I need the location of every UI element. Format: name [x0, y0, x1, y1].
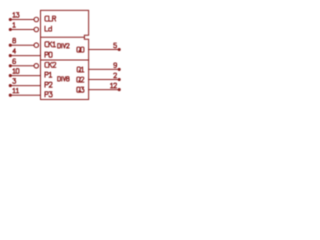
pin number 5 — [114, 43, 117, 48]
pin name Q2 — [77, 77, 84, 82]
pin name P2 — [45, 82, 52, 87]
pin 11 end dot — [9, 94, 12, 97]
pin 1 invert bubble — [34, 27, 39, 32]
pin 8 end dot — [9, 44, 12, 47]
pin name Q1 — [77, 67, 84, 72]
pin number 6 — [13, 59, 16, 64]
pin 6 invert bubble — [34, 64, 39, 69]
pin 12 end dot — [118, 88, 121, 91]
pin 10 end dot — [9, 74, 12, 77]
pin number 9 — [114, 63, 117, 68]
pin name P0 — [45, 52, 52, 57]
pin 12 Q3 wire — [89, 89, 118, 91]
pin name P1 — [45, 72, 52, 77]
pin 9 Q1 wire — [89, 68, 118, 70]
pin name CK2 — [45, 62, 56, 67]
pin 2 Q2 wire — [89, 79, 118, 81]
pin 9 end dot — [118, 68, 121, 71]
pin 6 CK2 wire — [10, 65, 33, 67]
pin name CK1 — [45, 42, 56, 47]
pin 5 Q0 wire — [89, 49, 118, 51]
pin name Q3 — [77, 87, 84, 92]
divider control block / DIV2 section — [41, 36, 85, 38]
pin number 10 — [13, 69, 19, 74]
pin number 1 — [13, 23, 15, 28]
pin 13 end dot — [9, 18, 12, 21]
pin 4 P0 wire — [10, 55, 40, 57]
pin 6 end dot — [9, 64, 12, 67]
pin 4 end dot — [9, 54, 12, 57]
function label DIV2 — [58, 44, 69, 48]
pin number 4 — [13, 49, 16, 54]
IC U1 74LS197 body outline (control block notch on right) — [41, 10, 89, 99]
pin 11 P3 wire — [10, 94, 40, 96]
pin 2 end dot — [118, 78, 121, 81]
pin name Q0 — [77, 47, 84, 52]
pin 5 end dot — [118, 48, 121, 51]
pin 8 CK1 wire — [10, 44, 33, 46]
pin 3 end dot — [9, 84, 12, 87]
pin 3 P2 wire — [10, 85, 40, 87]
pin 1 Ld wire — [10, 29, 33, 31]
pin number 11 — [13, 88, 19, 93]
divider DIV2 / DIV8 section — [41, 59, 89, 61]
pin name CLR — [45, 16, 56, 21]
pin number 8 — [13, 38, 16, 43]
pin number 3 — [13, 79, 16, 84]
pin 1 end dot — [9, 28, 12, 31]
pin number 2 — [114, 73, 117, 78]
pin number 13 — [13, 13, 19, 18]
pin number 12 — [111, 83, 117, 88]
pin 13 CLR wire — [10, 19, 33, 21]
pin name Ld — [45, 26, 52, 31]
pin 8 invert bubble — [34, 43, 39, 48]
function label DIV8 — [58, 77, 69, 81]
pin 10 P1 wire — [10, 75, 40, 77]
pin 13 invert bubble — [34, 17, 39, 22]
pin name P3 — [45, 92, 52, 97]
